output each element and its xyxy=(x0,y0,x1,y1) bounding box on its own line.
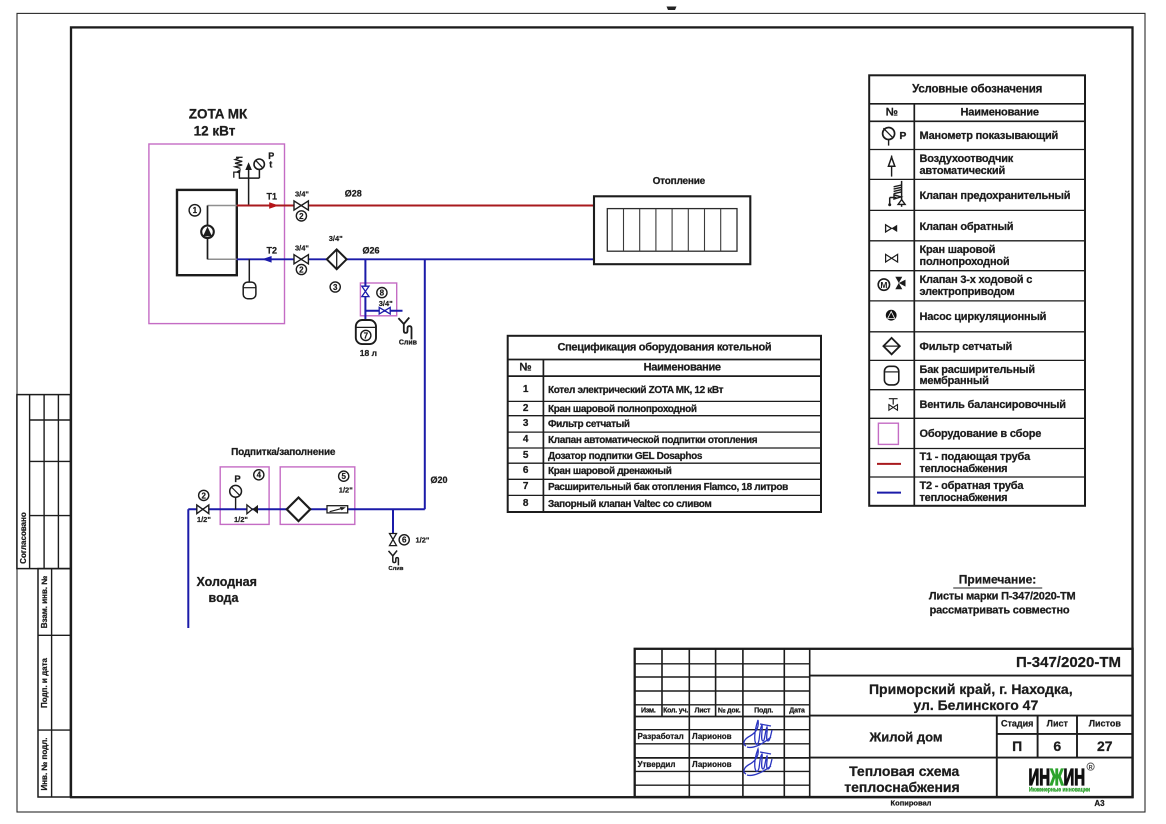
svg-text:T2: T2 xyxy=(267,246,278,256)
svg-text:P: P xyxy=(234,474,241,485)
svg-text:Инженерные инновации: Инженерные инновации xyxy=(1029,787,1091,794)
svg-text:Ø28: Ø28 xyxy=(345,188,362,198)
svg-text:1/2": 1/2" xyxy=(234,515,248,524)
svg-text:Слив: Слив xyxy=(399,339,418,346)
svg-text:6: 6 xyxy=(402,536,407,545)
svg-text:2: 2 xyxy=(299,212,304,221)
svg-text:2: 2 xyxy=(201,491,206,500)
svg-text:Ø20: Ø20 xyxy=(430,475,447,485)
svg-text:P: P xyxy=(899,130,906,142)
svg-text:T1: T1 xyxy=(267,192,278,202)
svg-text:Ø26: Ø26 xyxy=(362,245,379,255)
svg-text:7: 7 xyxy=(364,331,369,340)
svg-text:3/4": 3/4" xyxy=(295,190,309,199)
svg-text:1/2": 1/2" xyxy=(416,536,430,545)
svg-text:3/4": 3/4" xyxy=(295,243,309,252)
svg-text:1/2": 1/2" xyxy=(197,515,211,524)
svg-text:4: 4 xyxy=(257,471,262,480)
svg-text:2: 2 xyxy=(299,265,304,274)
svg-text:3/4": 3/4" xyxy=(379,299,393,308)
svg-text:8: 8 xyxy=(380,289,385,298)
svg-text:Слив: Слив xyxy=(388,566,403,572)
svg-text:18 л: 18 л xyxy=(360,348,377,358)
svg-text:R: R xyxy=(1089,765,1093,771)
svg-text:5: 5 xyxy=(341,472,346,481)
svg-text:1: 1 xyxy=(193,206,198,215)
svg-text:3/4": 3/4" xyxy=(329,234,343,243)
svg-text:3: 3 xyxy=(333,283,338,292)
svg-text:1/2": 1/2" xyxy=(339,485,353,494)
svg-text:М: М xyxy=(880,280,887,290)
svg-text:t: t xyxy=(269,160,272,170)
